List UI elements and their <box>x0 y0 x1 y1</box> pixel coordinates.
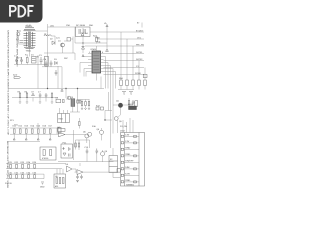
wire mid drops <box>38 55 58 89</box>
wire right mid verticals <box>105 92 112 120</box>
svg-text:PGND: PGND <box>135 72 141 75</box>
row L diodes (second bottom-left row) <box>6 164 66 169</box>
diode D7 <box>32 91 35 96</box>
capacitor C5 <box>50 61 53 67</box>
svg-text:CN9001: CN9001 <box>126 184 135 187</box>
resistor R10 <box>128 98 130 108</box>
wire RN1 bottom ties <box>118 86 145 90</box>
ground (below RN1) <box>122 92 133 95</box>
svg-text:ACD: ACD <box>13 74 18 77</box>
varistor ZV1 <box>16 38 23 42</box>
diode D6 <box>106 49 109 51</box>
node HV label <box>36 56 39 59</box>
svg-text:GATE2: GATE2 <box>136 58 143 61</box>
wire L2 tie <box>51 36 55 41</box>
net flag VCC up <box>104 22 108 43</box>
label RM9011 <box>97 41 101 44</box>
resistor R12 <box>78 140 80 150</box>
small boxes RB1 <box>77 100 81 103</box>
capacitor C3 (bulk) <box>39 54 43 64</box>
capacitor C7 <box>38 91 41 98</box>
wire transformer to rail <box>29 46 31 57</box>
diode D3 <box>54 58 57 65</box>
wire left drop <box>19 43 30 45</box>
label DM9001 <box>89 24 94 27</box>
wire bottom long <box>75 171 118 173</box>
IC U7 (small slab) <box>129 103 137 109</box>
wire row K feed <box>37 123 39 128</box>
svg-text:GATE1: GATE1 <box>136 51 143 54</box>
wire row stubs down <box>20 98 52 102</box>
svg-text:PS_ON: PS_ON <box>120 125 127 128</box>
svg-text:IC9001: IC9001 <box>42 157 49 160</box>
resistor R11 <box>75 143 77 147</box>
box B4 (left of connector) <box>109 156 118 173</box>
label RM9008 <box>96 37 101 40</box>
capacitor C13 <box>80 175 83 180</box>
ground (row K) <box>13 138 51 140</box>
label CN top <box>120 130 125 133</box>
wire CN2 entries <box>123 118 133 133</box>
diode D4 <box>81 28 88 43</box>
ground arrow (D5 chain) <box>82 55 84 57</box>
junction dot bus-mid <box>65 88 66 89</box>
label CY1 <box>18 57 23 60</box>
transformer T1 <box>24 25 36 53</box>
wire Q3 ties <box>66 89 80 113</box>
capacitor C10 <box>85 146 90 154</box>
wire U3 feeds <box>60 108 68 114</box>
label CM9001 <box>66 24 71 27</box>
wire long bus y88 <box>8 88 104 90</box>
node AC-L label <box>26 24 32 27</box>
transistor Q1 <box>58 40 65 48</box>
rail PFC_FB <box>85 44 144 47</box>
resistor R15 <box>79 118 81 129</box>
resistor R14 <box>96 104 104 110</box>
svg-text:SECONDARY RECTIFIER OUTPUT STA: SECONDARY RECTIFIER OUTPUT STAGE <box>6 141 9 189</box>
wire snubber second drop <box>72 37 74 54</box>
labels row M <box>9 172 38 175</box>
labels row K <box>13 124 54 127</box>
junction dot (D4 chain) <box>82 42 83 43</box>
node PFC label <box>64 57 69 60</box>
wire top feed <box>36 27 76 31</box>
wire bottom mid rail <box>58 154 114 162</box>
ground arrow (bus) <box>61 89 63 91</box>
svg-text:PS5.3V: PS5.3V <box>5 182 12 185</box>
wire B4 tie <box>113 148 121 178</box>
comparator U5 <box>66 163 81 172</box>
IC U1 right pins <box>101 54 104 72</box>
fuse F1 <box>17 31 21 44</box>
junction dot bus-right <box>77 88 78 89</box>
resistor R5 <box>51 93 53 98</box>
capacitor C12 <box>76 175 79 183</box>
wire U1 pin4 jog <box>104 63 109 89</box>
label TH1 <box>14 124 19 127</box>
wire nested jog left <box>100 77 102 89</box>
label RT1 <box>10 119 15 122</box>
svg-text:PFC_FB: PFC_FB <box>136 44 144 47</box>
transistor Q2 <box>67 96 70 99</box>
wire U1 pin6 jog <box>104 69 114 134</box>
svg-text:CNM: CNM <box>120 130 125 133</box>
row M capacitors (third bottom-left row) <box>6 174 44 179</box>
comparator U4 <box>57 126 65 137</box>
rail GND1 <box>104 72 148 78</box>
net flag AC_DET (top right corner) <box>137 22 142 28</box>
wire component row tie <box>42 67 62 89</box>
wire row K stubs <box>14 128 57 138</box>
resistor R6 <box>63 99 65 102</box>
junction dot right mid <box>104 119 105 120</box>
wire Q stub rail <box>76 140 90 150</box>
label R16 <box>92 125 97 128</box>
capacitor C6 <box>55 70 58 76</box>
box B1 (sync rect module) <box>40 147 56 160</box>
resistor R8 <box>85 100 87 106</box>
resistor R7 <box>77 100 90 106</box>
box U3 (3-terminal module) <box>58 114 70 123</box>
transistor Q7 <box>88 132 92 136</box>
junction dot bus-left <box>47 88 48 89</box>
labels row L <box>9 161 38 164</box>
capacitor C11 <box>96 149 99 155</box>
svg-text:VCC: VCC <box>137 37 142 40</box>
node AC label bottom <box>5 182 12 185</box>
wire U1 pin7 jog <box>104 72 116 89</box>
resistor R1 <box>25 54 28 65</box>
page background <box>0 0 149 198</box>
ground (B3 left) <box>40 182 45 189</box>
label C21 <box>56 37 61 40</box>
rail OUT1 <box>104 51 145 54</box>
node PS-ON label <box>120 125 127 128</box>
wire B3 feeds <box>57 169 63 174</box>
svg-text:B+430V: B+430V <box>136 30 144 33</box>
capacitor C8 <box>45 93 48 98</box>
ground (row) <box>19 102 53 103</box>
transistor Q9 <box>101 150 109 162</box>
wire R stubs <box>82 106 89 109</box>
net flag AC_DET left <box>13 74 21 79</box>
capacitor C4 <box>44 58 48 67</box>
capacitor C20 <box>64 38 73 42</box>
wire U4 out <box>65 130 85 160</box>
rail CS <box>104 65 145 68</box>
svg-text:RC SNUB: RC SNUB <box>76 24 86 27</box>
resistor network RN1 <box>119 32 146 86</box>
label LM9001 <box>50 25 55 28</box>
wire U1 top feed <box>95 46 97 81</box>
IC U1 PWM controller <box>91 48 101 73</box>
wire VCC loop <box>83 35 107 49</box>
svg-text:REG: REG <box>59 118 64 121</box>
resistor R9 <box>88 100 90 106</box>
resistor R13 <box>96 107 99 110</box>
net box PS13V <box>117 169 120 172</box>
wire U1 pin2 jog <box>104 57 106 89</box>
row K diodes (upper bottom-left row) <box>10 128 57 134</box>
snubber box SN1 <box>76 24 91 37</box>
wire main vertical left <box>47 24 49 89</box>
wire mid horizontal <box>44 53 75 60</box>
capacitor C22 (tall) <box>45 56 49 66</box>
transistor Q5 <box>114 108 122 133</box>
optocoupler PC1 <box>61 142 73 159</box>
inductor L2 <box>44 33 51 37</box>
connector CN2 (output) <box>121 133 145 187</box>
wire row M drop <box>43 174 45 179</box>
transistor Q8 <box>97 128 104 140</box>
PDF badge <box>0 0 43 23</box>
svg-text:T9001: T9001 <box>26 50 33 53</box>
wire snubber drop <box>75 27 83 43</box>
wire U1 pin5 jog <box>104 66 111 149</box>
wire U1 left pin runs <box>80 54 88 77</box>
diode bridge D1 <box>31 54 36 64</box>
transistor Q3 (with heatsink) <box>71 96 75 106</box>
diode D5 <box>82 43 85 54</box>
svg-text:PFC: PFC <box>64 57 69 60</box>
capacitor C2 <box>20 57 23 64</box>
box B3 (shunt reg module) <box>54 174 66 188</box>
capacitor C19 (row K right) <box>57 127 61 134</box>
IC U2 regulator <box>56 97 61 103</box>
capacitor C1 (X-cap) <box>14 55 18 65</box>
resistor R3 <box>18 91 21 98</box>
rail VCC <box>97 37 144 40</box>
wire AC input bottom rail <box>14 64 48 66</box>
resistor R4 <box>25 91 28 98</box>
wire rail above row L <box>7 141 40 143</box>
rail OUT2 <box>104 58 145 61</box>
transistor Q6 <box>83 131 89 144</box>
wire lower bus y97 <box>12 97 58 99</box>
svg-text:GND: GND <box>40 186 45 189</box>
relay RY1 <box>135 101 138 106</box>
wire Q1 drop <box>62 47 64 53</box>
IC U1 left pins <box>88 54 92 72</box>
transistor Q4 (dark) <box>113 100 133 108</box>
rail PFC_OUT <box>90 30 144 33</box>
capacitor C9 <box>132 100 135 105</box>
diode D2 <box>50 38 55 45</box>
diode D30 (arrow) <box>77 170 83 175</box>
resistor R2 <box>93 35 97 42</box>
ground (R7 R8 R9) <box>81 108 90 110</box>
